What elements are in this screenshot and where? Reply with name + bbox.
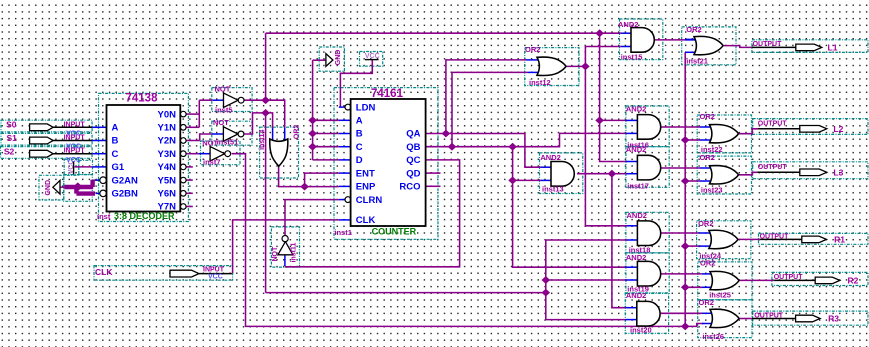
svg-text:C: C [356,142,363,153]
svg-text:Y1N: Y1N [158,123,177,134]
svg-text:COUNTER: COUNTER [372,227,417,237]
svg-text:AND2: AND2 [626,253,646,262]
svg-text:INPUT: INPUT [64,121,86,128]
svg-text:AND2: AND2 [626,105,646,114]
svg-text:inst13: inst13 [542,185,564,194]
svg-text:R1: R1 [834,234,845,244]
svg-text:Y6N: Y6N [158,189,177,200]
svg-text:inst5: inst5 [215,105,233,114]
svg-text:OR2: OR2 [294,125,301,140]
svg-text:L3: L3 [833,168,843,178]
svg-text:L2: L2 [833,124,843,134]
svg-text:CLK: CLK [95,267,113,277]
svg-text:inst12: inst12 [529,78,551,87]
svg-text:INPUT: INPUT [203,266,225,273]
svg-text:Y0N: Y0N [158,109,177,120]
svg-text:LDN: LDN [356,102,376,113]
svg-text:OUTPUT: OUTPUT [753,41,783,48]
svg-text:VCC: VCC [66,157,81,164]
svg-text:OUTPUT: OUTPUT [758,164,788,171]
svg-text:inst20: inst20 [630,326,652,335]
svg-text:OR2: OR2 [700,153,715,162]
svg-text:inst1: inst1 [334,228,352,237]
svg-text:inst51: inst51 [217,138,239,147]
svg-text:OR2: OR2 [525,45,540,54]
svg-text:3:8 DECODER: 3:8 DECODER [114,211,175,221]
svg-text:OUTPUT: OUTPUT [754,313,784,320]
svg-text:R3: R3 [828,314,839,324]
svg-text:GND: GND [45,180,52,196]
svg-text:R2: R2 [848,275,859,285]
svg-text:Y3N: Y3N [158,149,177,160]
svg-text:L1: L1 [828,43,838,53]
svg-text:74161: 74161 [371,88,404,100]
svg-text:inst26: inst26 [702,332,724,341]
svg-text:inst7: inst7 [203,157,221,166]
svg-text:AND2: AND2 [626,145,646,154]
svg-text:A: A [356,116,363,127]
svg-text:QC: QC [406,155,420,166]
svg-text:B: B [356,129,363,140]
svg-text:inst14: inst14 [259,130,266,150]
svg-text:ENP: ENP [356,182,376,193]
svg-text:CLRN: CLRN [356,195,383,206]
svg-text:VCC: VCC [208,274,223,281]
svg-text:OUTPUT: OUTPUT [774,274,804,281]
svg-text:Y2N: Y2N [158,136,177,147]
svg-text:OR2: OR2 [700,112,715,121]
svg-text:Y4N: Y4N [158,162,177,173]
svg-text:ENT: ENT [356,168,375,179]
svg-text:INPUT: INPUT [64,148,86,155]
svg-text:RCO: RCO [399,182,420,193]
svg-text:inst15: inst15 [621,52,643,61]
svg-text:S2: S2 [4,147,15,157]
svg-text:74138: 74138 [126,92,159,104]
svg-text:GND: GND [335,50,342,66]
svg-text:S1: S1 [7,133,18,143]
svg-text:OUTPUT: OUTPUT [760,234,790,241]
svg-text:G2AN: G2AN [112,175,139,186]
svg-text:inst17: inst17 [627,181,649,190]
svg-text:S0: S0 [6,119,17,129]
svg-text:NOT: NOT [202,138,218,147]
svg-text:CLK: CLK [356,215,376,226]
svg-text:OR2: OR2 [700,259,715,268]
svg-text:inst23: inst23 [701,185,723,194]
svg-text:G2BN: G2BN [112,189,139,200]
svg-text:inst11: inst11 [291,243,298,263]
svg-text:INPUT: INPUT [64,135,86,142]
svg-text:QB: QB [406,142,420,153]
svg-text:inst: inst [97,212,111,221]
svg-text:AND2: AND2 [540,153,560,162]
svg-text:D: D [356,155,363,166]
svg-text:QA: QA [406,129,420,140]
svg-text:G1: G1 [112,162,125,173]
svg-text:OR2: OR2 [698,219,713,228]
svg-text:OUTPUT: OUTPUT [758,121,788,128]
svg-text:NOT: NOT [272,246,279,262]
svg-text:Y5N: Y5N [158,175,177,186]
svg-text:AND2: AND2 [618,20,638,29]
svg-text:QD: QD [406,168,420,179]
svg-text:NOT: NOT [213,118,229,127]
svg-text:C: C [112,149,119,160]
svg-text:AND2: AND2 [627,211,647,220]
svg-text:OR2: OR2 [686,25,701,34]
svg-text:OR2: OR2 [699,298,714,307]
svg-text:B: B [112,136,119,147]
svg-text:inst21: inst21 [686,56,708,65]
svg-text:AND2: AND2 [626,291,646,300]
svg-text:A: A [112,123,119,134]
svg-text:NOT: NOT [215,85,231,94]
